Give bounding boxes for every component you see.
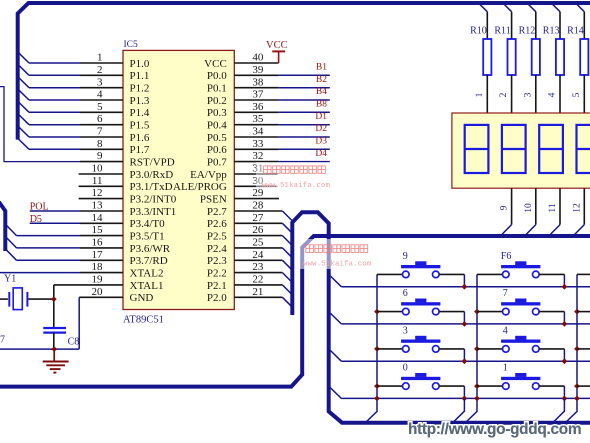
svg-text:EA/Vpp: EA/Vpp [190, 169, 227, 181]
svg-text:P2.0: P2.0 [207, 292, 227, 304]
svg-text:P1.4: P1.4 [130, 107, 150, 119]
svg-text:36: 36 [252, 101, 264, 113]
svg-text:26: 26 [252, 224, 264, 236]
svg-text:22: 22 [252, 274, 263, 286]
svg-text:XTAL1: XTAL1 [130, 280, 164, 292]
svg-text:P2.5: P2.5 [207, 231, 227, 243]
svg-text:P3.7/RD: P3.7/RD [130, 255, 168, 267]
svg-text:17: 17 [92, 249, 104, 261]
svg-text:D1: D1 [315, 112, 327, 122]
svg-text:19: 19 [92, 274, 104, 286]
svg-text:37: 37 [252, 89, 264, 101]
svg-text:P1.7: P1.7 [130, 144, 150, 156]
svg-text:9: 9 [403, 251, 408, 262]
svg-text:6: 6 [97, 113, 103, 125]
svg-text:C8: C8 [68, 336, 80, 347]
svg-text:25: 25 [252, 237, 264, 249]
svg-text:P2.7: P2.7 [207, 206, 227, 218]
svg-text:P0.6: P0.6 [207, 144, 227, 156]
svg-text:P1.2: P1.2 [130, 83, 150, 95]
svg-text:28: 28 [252, 200, 264, 212]
svg-text:www.51kaifa.com: www.51kaifa.com [303, 261, 371, 269]
svg-text:P0.4: P0.4 [207, 120, 227, 132]
svg-text:P1.6: P1.6 [130, 132, 150, 144]
svg-text:P3.5/T1: P3.5/T1 [130, 231, 165, 243]
svg-text:R11: R11 [494, 26, 510, 37]
svg-text:14: 14 [92, 212, 104, 224]
svg-text:D3: D3 [315, 137, 327, 147]
svg-text:PSEN: PSEN [200, 194, 227, 206]
svg-text:11: 11 [548, 203, 558, 212]
svg-text:2: 2 [97, 64, 103, 76]
svg-text:16: 16 [92, 237, 104, 249]
svg-text:P0.7: P0.7 [207, 157, 227, 169]
svg-text:P3.0/RxD: P3.0/RxD [130, 169, 174, 181]
svg-text:P2.4: P2.4 [207, 243, 227, 255]
svg-text:P0.1: P0.1 [207, 83, 227, 95]
svg-text:12: 12 [92, 187, 103, 199]
svg-text:R13: R13 [543, 26, 560, 37]
svg-text:P1.1: P1.1 [130, 70, 150, 82]
svg-text:B2: B2 [316, 75, 327, 85]
svg-text:XTAL2: XTAL2 [130, 268, 164, 280]
svg-text:4: 4 [548, 92, 558, 97]
svg-text:8: 8 [97, 138, 103, 150]
svg-text:5: 5 [97, 101, 103, 113]
svg-text:13: 13 [92, 200, 104, 212]
svg-text:P2.2: P2.2 [207, 268, 227, 280]
svg-text:F6: F6 [501, 251, 512, 262]
svg-text:4: 4 [97, 89, 103, 101]
svg-text:23: 23 [252, 261, 264, 273]
svg-text:P3.2/INT0: P3.2/INT0 [130, 194, 177, 206]
svg-text:VCC: VCC [204, 58, 227, 70]
svg-text:7: 7 [0, 335, 5, 346]
svg-text:20: 20 [92, 286, 104, 298]
svg-text:34: 34 [252, 126, 264, 138]
svg-text:VCC: VCC [266, 40, 288, 51]
svg-text:P2.6: P2.6 [207, 218, 227, 230]
svg-text:R14: R14 [567, 26, 584, 37]
svg-text:RST/VPD: RST/VPD [130, 157, 175, 169]
svg-text:1: 1 [503, 363, 508, 374]
svg-text:P1.3: P1.3 [130, 95, 150, 107]
svg-text:ALE/PROG: ALE/PROG [173, 181, 227, 193]
svg-text:15: 15 [92, 224, 104, 236]
svg-text:B8: B8 [316, 100, 327, 110]
svg-text:12: 12 [572, 203, 582, 213]
svg-text:P0.3: P0.3 [207, 107, 227, 119]
svg-text:9: 9 [97, 150, 103, 162]
svg-text:33: 33 [252, 138, 264, 150]
svg-text:http://www.go-gddq.com: http://www.go-gddq.com [408, 421, 581, 438]
svg-text:www.51kaifa.com: www.51kaifa.com [262, 182, 330, 190]
svg-text:3: 3 [523, 92, 533, 97]
svg-text:32: 32 [252, 150, 263, 162]
svg-text:P3.6/WR: P3.6/WR [130, 243, 171, 255]
svg-text:24: 24 [252, 249, 264, 261]
svg-text:9: 9 [500, 205, 510, 210]
svg-text:11: 11 [92, 175, 103, 187]
svg-text:P1.5: P1.5 [130, 120, 150, 132]
svg-text:P3.4/T0: P3.4/T0 [130, 218, 166, 230]
svg-text:D4: D4 [315, 149, 327, 159]
svg-text:1: 1 [475, 92, 485, 97]
svg-text:P3.3/INT1: P3.3/INT1 [130, 206, 177, 218]
svg-text:P2.3: P2.3 [207, 255, 227, 267]
svg-text:7: 7 [97, 126, 103, 138]
svg-text:P3.1/TxD: P3.1/TxD [130, 181, 173, 193]
svg-text:POL: POL [30, 202, 49, 213]
svg-text:P0.5: P0.5 [207, 132, 227, 144]
svg-text:38: 38 [252, 76, 264, 88]
svg-text:39: 39 [252, 64, 264, 76]
svg-text:D2: D2 [315, 124, 327, 134]
svg-text:21: 21 [252, 286, 263, 298]
svg-text:4: 4 [503, 325, 508, 336]
svg-text:0: 0 [403, 363, 408, 374]
svg-text:AT89C51: AT89C51 [123, 315, 164, 326]
svg-text:6: 6 [403, 288, 408, 299]
svg-text:D5: D5 [30, 214, 42, 225]
svg-text:35: 35 [252, 113, 264, 125]
svg-text:18: 18 [92, 261, 104, 273]
svg-text:2: 2 [499, 92, 509, 97]
svg-text:3: 3 [97, 76, 103, 88]
svg-text:1: 1 [97, 52, 103, 64]
svg-text:B1: B1 [316, 63, 327, 73]
svg-text:40: 40 [252, 52, 264, 64]
svg-text:5: 5 [572, 92, 582, 97]
svg-text:Y1: Y1 [4, 274, 16, 285]
svg-text:R10: R10 [470, 26, 487, 37]
svg-text:10: 10 [524, 203, 534, 213]
svg-text:P0.0: P0.0 [207, 70, 227, 82]
svg-text:P0.2: P0.2 [207, 95, 227, 107]
svg-text:27: 27 [252, 212, 264, 224]
svg-text:IC5: IC5 [124, 40, 139, 50]
svg-text:P1.0: P1.0 [130, 58, 150, 70]
svg-text:P2.1: P2.1 [207, 280, 227, 292]
svg-text:R12: R12 [519, 26, 536, 37]
svg-text:3: 3 [403, 325, 408, 336]
svg-text:GND: GND [130, 292, 154, 304]
svg-text:10: 10 [92, 163, 104, 175]
svg-text:7: 7 [503, 288, 508, 299]
svg-text:B4: B4 [316, 87, 327, 97]
